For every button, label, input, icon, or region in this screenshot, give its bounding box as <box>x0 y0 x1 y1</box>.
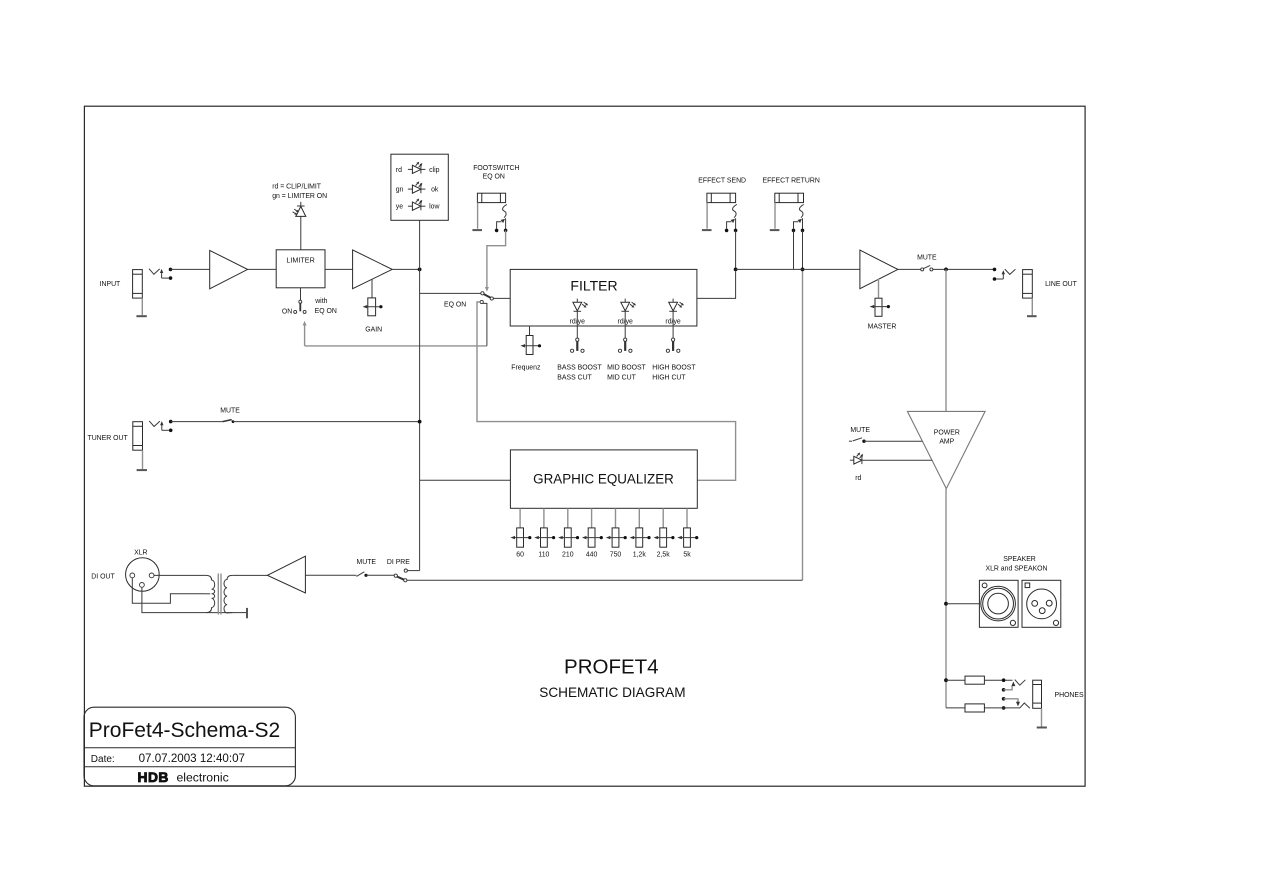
LED D6 mid rd/ye <box>621 299 636 312</box>
wire power rail corner to R2 <box>946 707 965 709</box>
node send tip <box>734 229 738 233</box>
node return contact <box>792 229 796 233</box>
node return junction <box>801 268 805 272</box>
svg-text:TUNER OUT: TUNER OUT <box>88 435 129 442</box>
INPUT jack J1 <box>133 270 143 316</box>
wire mid LED to switch <box>624 311 626 338</box>
svg-text:BASS CUT: BASS CUT <box>557 375 592 382</box>
svg-text:FILTER: FILTER <box>570 278 617 294</box>
switch S1 limiter ON <box>294 300 306 313</box>
node speaker junction <box>944 602 948 606</box>
FILTER block <box>510 269 697 326</box>
node footswitch tip <box>504 229 508 233</box>
svg-text:210: 210 <box>562 551 574 558</box>
phones upper tip contact <box>1015 680 1026 686</box>
op-amp U3 master stage <box>860 250 898 289</box>
switch S5 high boost/cut <box>666 338 680 352</box>
slider 2,5k <box>654 508 675 547</box>
phones lower switch arrow <box>1004 699 1020 707</box>
svg-text:PHONES: PHONES <box>1055 692 1085 699</box>
node send junction <box>734 268 738 272</box>
wire FILTER output right <box>697 271 736 298</box>
node tuner ring <box>169 429 173 433</box>
wire tuner mute to bus <box>233 421 420 423</box>
transformer T1 primary <box>206 575 215 612</box>
node phones upper junction <box>944 678 948 682</box>
svg-text:MUTE: MUTE <box>917 254 937 261</box>
wire footswitch to EQ switch <box>485 230 506 291</box>
wire node A to EQ switch <box>420 292 481 294</box>
switch S6 master mute <box>921 265 933 271</box>
svg-text:MUTE: MUTE <box>850 427 870 434</box>
wire DI PRE upper throw to bus <box>408 570 420 572</box>
svg-text:POWER: POWER <box>934 430 960 437</box>
svg-text:clip: clip <box>429 167 440 174</box>
svg-text:Date:: Date: <box>91 754 115 765</box>
ground for FOOTSWITCH jack <box>472 229 482 231</box>
svg-text:LINE OUT: LINE OUT <box>1045 281 1078 288</box>
wire mute to line out <box>933 268 995 270</box>
svg-text:EQ ON: EQ ON <box>315 308 337 315</box>
svg-text:440: 440 <box>586 551 598 558</box>
switch S8 tuner mute <box>223 420 235 423</box>
svg-text:gn = LIMITER ON: gn = LIMITER ON <box>272 193 327 200</box>
title block frame <box>84 707 295 786</box>
svg-text:EFFECT SEND: EFFECT SEND <box>698 177 746 184</box>
svg-text:EQ ON: EQ ON <box>444 302 466 309</box>
node input tip <box>169 268 173 272</box>
node send contact <box>725 229 729 233</box>
wire XLR pin2 to transformer <box>154 574 206 576</box>
op-amp U1 input buffer <box>210 250 248 288</box>
svg-text:MUTE: MUTE <box>220 407 240 414</box>
EFFECT SEND jack J3 <box>707 193 736 229</box>
wire high LED to switch <box>672 311 674 338</box>
svg-text:GRAPHIC EQUALIZER: GRAPHIC EQUALIZER <box>533 472 674 487</box>
LED D8 power rd <box>850 453 863 465</box>
wire limiter to ON switch <box>300 288 302 301</box>
wire power LED to amp <box>862 459 932 461</box>
wire vertical bus node A down <box>419 269 421 570</box>
wire DI mute to DI PRE <box>366 574 394 576</box>
svg-text:INPUT: INPUT <box>100 281 121 288</box>
svg-text:5k: 5k <box>683 551 691 558</box>
svg-text:rd: rd <box>855 475 861 482</box>
svg-text:with: with <box>314 298 327 305</box>
wire amp to limiter <box>248 268 277 270</box>
svg-text:low: low <box>429 204 439 211</box>
slider 5k <box>677 508 698 547</box>
FOOTSWITCH jack tip lever <box>497 204 507 230</box>
wire master amp to mute <box>898 268 921 270</box>
potentiometer Frequenz <box>520 336 541 355</box>
wire master amp to pot <box>878 279 880 298</box>
wire return tip down to DI rail <box>802 230 804 271</box>
PHONES jack J10 <box>1033 680 1042 726</box>
EFFECT RETURN jack J4 <box>775 193 804 229</box>
slider 1,2k <box>630 508 651 547</box>
wire filter to frequenz pot <box>529 326 531 336</box>
wire to resistor R1 <box>946 679 965 681</box>
LED D1 clip/limit indicator <box>293 202 306 217</box>
svg-text:rd: rd <box>396 167 402 174</box>
svg-text:1,2k: 1,2k <box>633 551 647 558</box>
wire secondary to DI amp <box>232 574 267 576</box>
svg-text:gn: gn <box>396 187 404 194</box>
switch S7 power mute <box>849 438 866 443</box>
svg-text:rd = CLIP/LIMIT: rd = CLIP/LIMIT <box>272 184 322 191</box>
switch S4 mid boost/cut <box>618 338 632 352</box>
node master out junction <box>944 268 948 272</box>
switch S2 EQ ON <box>480 292 493 304</box>
ground for PHONES jack <box>1037 727 1047 729</box>
ground for EFFECT SEND jack <box>702 229 712 231</box>
svg-text:ON: ON <box>282 308 292 315</box>
slider 750 <box>606 508 627 547</box>
svg-text:HDB: HDB <box>138 770 169 785</box>
svg-text:HIGH CUT: HIGH CUT <box>652 375 686 382</box>
arrow to ON switch <box>303 321 307 346</box>
SPEAKON connector J8 <box>979 580 1018 627</box>
ground for EFFECT RETURN jack <box>770 229 780 231</box>
LED D7 high rd/ye <box>669 299 684 312</box>
TUNER OUT jack J6 <box>133 422 143 470</box>
svg-text:EQ ON: EQ ON <box>483 174 505 181</box>
wire amp2 to node A <box>392 268 419 270</box>
svg-text:DI PRE: DI PRE <box>387 559 410 566</box>
potentiometer GAIN <box>363 298 383 316</box>
node tuner tip <box>169 420 173 424</box>
EFFECT SEND tip lever <box>727 204 737 230</box>
ground bar secondary <box>246 608 248 618</box>
svg-text:LIMITER: LIMITER <box>286 256 314 265</box>
INPUT jack switch arrow <box>160 269 169 278</box>
TUNER jack tip contact <box>149 421 160 427</box>
svg-text:MID BOOST: MID BOOST <box>607 364 646 371</box>
svg-text:750: 750 <box>610 551 622 558</box>
switch S3 bass boost/cut <box>571 338 585 352</box>
svg-text:MASTER: MASTER <box>868 324 897 331</box>
node tuner junction <box>418 420 422 424</box>
slider 440 <box>582 508 603 547</box>
wire to speakon <box>946 603 979 605</box>
svg-text:ProFet4-Schema-S2: ProFet4-Schema-S2 <box>89 719 280 742</box>
svg-text:XLR: XLR <box>134 549 147 556</box>
XLR speaker connector J9 <box>1022 580 1061 627</box>
wire tuner to mute <box>171 421 223 423</box>
svg-text:SPEAKER: SPEAKER <box>1003 556 1036 563</box>
wire power amp tip down <box>945 489 947 708</box>
wire XLR pin3 to center tap <box>132 578 206 603</box>
LED D2 clip <box>408 162 426 174</box>
LED D5 bass rd/ye <box>573 299 588 312</box>
LINE OUT switch arrow <box>996 270 1005 279</box>
wire send to master amp <box>736 268 860 270</box>
node phones contact lower <box>1002 697 1006 701</box>
svg-text:EFFECT RETURN: EFFECT RETURN <box>763 177 820 184</box>
LED D3 ok <box>408 181 426 193</box>
node return tip <box>801 229 805 233</box>
svg-text:AMP: AMP <box>939 439 954 446</box>
wire limiter to amp2 <box>325 268 353 270</box>
ground for INPUT jack <box>136 315 146 317</box>
svg-text:60: 60 <box>516 551 524 558</box>
svg-text:07.07.2003 12:40:07: 07.07.2003 12:40:07 <box>139 752 245 765</box>
wire bass LED to switch <box>576 311 578 338</box>
wire input to amp <box>171 268 210 270</box>
LINE OUT jack J5 <box>1023 270 1033 316</box>
resistor R2 <box>965 704 984 712</box>
wire bus to GEQ input <box>420 479 511 481</box>
phones upper switch arrow <box>1004 682 1016 690</box>
INPUT jack tip contact <box>149 269 160 275</box>
phones lower tip contact <box>1020 703 1030 708</box>
XLR connector J7 <box>126 558 160 592</box>
svg-text:MUTE: MUTE <box>357 559 377 566</box>
frame border <box>84 106 1085 786</box>
svg-text:XLR and SPEAKON: XLR and SPEAKON <box>985 565 1047 572</box>
transformer T1 secondary <box>224 575 232 613</box>
switch S10 DI PRE <box>394 569 407 582</box>
wire XLR pin1 to bottom rail <box>142 587 247 612</box>
svg-text:Frequenz: Frequenz <box>511 364 541 371</box>
svg-text:SCHEMATIC DIAGRAM: SCHEMATIC DIAGRAM <box>539 685 685 700</box>
GRAPHIC EQUALIZER block <box>510 450 697 508</box>
svg-text:PROFET4: PROFET4 <box>564 655 659 678</box>
slider 60 <box>510 508 531 547</box>
resistor R1 <box>965 676 984 684</box>
wire R1 to phones contacts <box>984 679 1012 681</box>
LIMITER block <box>276 250 325 288</box>
node phones tip lower <box>1002 706 1006 710</box>
wire EQ switch to FILTER <box>493 297 510 299</box>
svg-text:BASS BOOST: BASS BOOST <box>557 364 602 371</box>
wire DI amp to mute <box>305 574 356 576</box>
op-amp U5 DI driver <box>267 556 305 593</box>
slider 210 <box>558 508 579 547</box>
node line out ring <box>993 277 997 281</box>
TUNER jack switch arrow <box>160 421 169 430</box>
EFFECT RETURN tip lever <box>794 204 804 230</box>
LINE OUT jack tip contact <box>1005 269 1016 274</box>
LED indicator box <box>391 154 448 220</box>
svg-text:FOOTSWITCH: FOOTSWITCH <box>473 165 519 172</box>
wire LED to limiter <box>300 216 302 249</box>
op-amp U4 power amp <box>907 411 985 488</box>
wire amp2 to gain pot <box>371 279 373 298</box>
svg-text:ok: ok <box>431 187 439 194</box>
wire EQ-ON lower throw to GEQ return <box>477 302 736 480</box>
svg-text:ye: ye <box>396 204 403 211</box>
switch S9 DI mute <box>356 572 367 577</box>
wire master junction down to power amp <box>945 269 947 411</box>
op-amp U2 gain stage <box>353 250 393 289</box>
transformer core <box>218 574 221 615</box>
wire R2 to phones tip <box>984 707 1019 709</box>
slider 110 <box>534 508 555 547</box>
svg-text:GAIN: GAIN <box>365 326 382 333</box>
node line out tip <box>993 268 997 272</box>
node input ring <box>169 276 173 280</box>
node A junction <box>418 268 422 272</box>
svg-text:HIGH BOOST: HIGH BOOST <box>652 364 696 371</box>
ground for TUNER jack <box>137 469 147 471</box>
potentiometer MASTER <box>870 298 890 316</box>
wire send tip down <box>735 230 737 269</box>
wire power mute to amp <box>864 440 922 442</box>
LED D4 low <box>408 199 426 211</box>
ground for LINE OUT jack <box>1027 315 1037 317</box>
node phones contact upper <box>1002 688 1006 692</box>
wire LED box to node A <box>419 220 421 269</box>
wire return contact down to line <box>793 230 795 269</box>
svg-text:2,5k: 2,5k <box>657 551 671 558</box>
node footswitch contact <box>495 229 499 233</box>
svg-text:MID CUT: MID CUT <box>607 375 636 382</box>
svg-text:110: 110 <box>538 551 549 558</box>
node phones tip upper <box>1002 678 1006 682</box>
svg-text:electronic: electronic <box>177 770 229 784</box>
svg-text:DI OUT: DI OUT <box>91 573 115 580</box>
wire with-EQ-ON link rail <box>305 345 487 347</box>
FOOTSWITCH jack J2 <box>477 193 505 229</box>
